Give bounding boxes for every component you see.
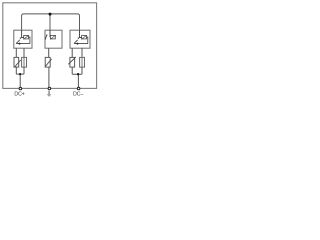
wire U1 internal xyxy=(16,37,30,44)
node U3 internal xyxy=(76,43,78,45)
node module 1 xyxy=(19,73,21,75)
switch blade U1 xyxy=(16,40,20,44)
SPD module box U2 xyxy=(45,30,62,48)
wire top bus DC+ to DC- xyxy=(22,14,80,30)
wire drop to module 2 xyxy=(49,14,51,30)
enclosure frame xyxy=(3,3,97,89)
terminal earth xyxy=(48,87,51,90)
svg-text:DC–: DC– xyxy=(73,91,83,97)
disconnector arrow U2 xyxy=(49,30,51,37)
micro varistor U3 xyxy=(82,35,87,39)
wire module 1 branches xyxy=(16,48,24,57)
terminal DC- xyxy=(77,87,80,90)
terminal DC+ xyxy=(19,87,22,90)
varistor RV3 xyxy=(70,57,75,67)
wire module 2 drop xyxy=(48,67,50,87)
wire module 3 branches xyxy=(72,48,82,57)
varistor RV2 xyxy=(45,57,50,67)
wire module 2 branch xyxy=(48,48,50,57)
disconnector arrow U3 xyxy=(80,30,82,38)
micro varistor U2 xyxy=(50,35,55,39)
SPD module box U1 xyxy=(14,30,32,48)
wire module 3 join xyxy=(72,67,82,87)
SPD module box U3 xyxy=(70,30,90,48)
wire U3 internal xyxy=(74,37,88,44)
node junction top bus xyxy=(49,13,52,16)
node module 3 xyxy=(77,73,79,75)
disconnector arrow U1 xyxy=(22,30,24,38)
wire module 1 join xyxy=(16,67,24,87)
fuse F1 xyxy=(22,57,27,67)
svg-text:DC+: DC+ xyxy=(14,91,24,97)
switch blade U3 xyxy=(74,40,78,44)
node U1 internal xyxy=(19,43,21,45)
switch blade U2 xyxy=(45,36,46,40)
fuse F3 xyxy=(80,57,85,67)
varistor RV1 xyxy=(14,57,19,67)
micro varistor U1 xyxy=(24,35,29,39)
ground arrow xyxy=(47,91,52,97)
